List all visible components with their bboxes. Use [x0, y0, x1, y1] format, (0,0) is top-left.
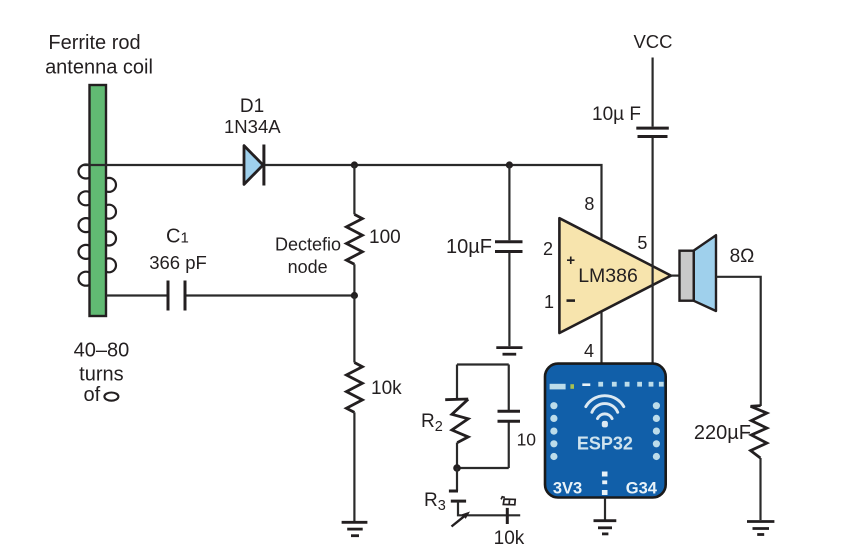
svg-text:10µ F: 10µ F: [592, 104, 641, 125]
wire: detector junction to R 10k: [353, 296, 355, 363]
svg-text:220µF: 220µF: [694, 422, 751, 444]
svg-text:Ferrite rod: Ferrite rod: [48, 32, 140, 54]
resistor 100: [346, 214, 362, 264]
wire: junction down to R 100: [353, 165, 355, 214]
capacitor 10 plates: [498, 411, 521, 421]
label: 40-80 turns of (oval): [74, 339, 130, 405]
trimmer R3 plate 1: [449, 490, 458, 493]
wire: loop bottom: [457, 467, 509, 469]
ESP32 wifi icon: [586, 396, 624, 419]
capacitor 10uF plates: [495, 242, 523, 252]
junction: top net / R 100: [351, 161, 358, 168]
antenna coil turns: [79, 165, 117, 286]
trimmer glyph: [501, 497, 515, 505]
svg-text:LM386: LM386: [578, 265, 638, 287]
wire: R2 loop top: [457, 363, 509, 365]
wire: top junction to 10uF cap: [508, 165, 510, 240]
ESP32 top pads: [550, 382, 664, 390]
svg-text:10: 10: [517, 429, 537, 449]
wire: R100 to detector junction: [353, 264, 355, 295]
ground (below ESP32): [594, 521, 617, 534]
svg-text:10k: 10k: [371, 378, 402, 399]
svg-text:40–80: 40–80: [74, 339, 130, 361]
trimmer R3 plate 2: [451, 500, 466, 503]
svg-text:10µF: 10µF: [446, 236, 492, 258]
svg-text:100: 100: [369, 227, 401, 248]
op-amp U1 LM386: [559, 218, 671, 333]
wire: VCC net down through triangle to ESP32: [651, 138, 653, 364]
wire: top net (coil top / D1 / detector / pin 8 corner): [84, 165, 602, 244]
wire: cap 10 bottom lead: [508, 423, 510, 469]
wire: VCC down to cap: [651, 58, 653, 127]
wire: bottom net (coil bottom to C1): [106, 294, 167, 296]
wire: LM386 output to speaker: [671, 275, 680, 277]
svg-text:3V3: 3V3: [553, 479, 582, 497]
svg-text:ESP32: ESP32: [577, 433, 633, 453]
resistor 10k: [346, 363, 362, 413]
svg-text:1N34A: 1N34A: [224, 116, 281, 137]
ESP32 right pads: [653, 402, 660, 460]
wire: pin 4 from LM386 down to ESP32: [600, 300, 602, 364]
resistor-drawn 220uF: [751, 406, 767, 458]
diode D1: [244, 145, 264, 186]
ESP32 left pads: [550, 402, 557, 460]
wire: ESP32 ground lead: [604, 498, 606, 520]
ground (below 220uF): [747, 522, 774, 535]
wire: speaker to 220uF: [716, 277, 761, 406]
capacitor C1 plates: [168, 281, 185, 311]
svg-text:node: node: [288, 257, 328, 277]
capacitor 10u F (VCC decoupling) plates: [636, 128, 669, 136]
minus sign (pin 1): [567, 299, 576, 302]
junction: R2 / R3: [453, 464, 461, 472]
svg-text:+: +: [566, 252, 575, 269]
speaker LS1 (magnet): [680, 251, 694, 301]
svg-text:D1: D1: [240, 96, 264, 117]
ferrite rod: [90, 85, 107, 316]
wire: 10uF cap to ground: [508, 253, 510, 346]
svg-text:2: 2: [543, 239, 553, 259]
svg-text:366 pF: 366 pF: [149, 252, 207, 273]
ground (below 10uF): [496, 348, 522, 355]
wire: cap 10 top lead: [508, 365, 510, 411]
wire: R 10k to ground: [353, 412, 355, 521]
svg-text:turns: turns: [79, 364, 123, 386]
ground (below 10k): [342, 522, 368, 535]
resistor R2: [445, 399, 468, 443]
svg-text:antenna coil: antenna coil: [45, 57, 153, 79]
svg-text:VCC: VCC: [633, 31, 672, 52]
svg-text:4: 4: [584, 341, 594, 361]
junction: detector node: [351, 292, 358, 299]
junction: top net / 10uF cap: [506, 161, 513, 168]
svg-text:1: 1: [544, 292, 554, 312]
module U2 ESP32: [545, 364, 666, 498]
ESP32 colon dots: [602, 472, 608, 496]
label: Dectefio node: [275, 234, 341, 277]
wire: C1 to detector node junction: [187, 294, 355, 296]
speaker LS1 (cone): [694, 235, 716, 311]
wiper arrow: [452, 515, 467, 527]
svg-text:C1: C1: [166, 225, 189, 247]
svg-text:8: 8: [584, 194, 594, 214]
svg-text:Dectefio: Dectefio: [275, 234, 341, 254]
svg-text:G34: G34: [626, 479, 658, 497]
svg-text:of: of: [83, 384, 100, 406]
wire: R3 wiper run: [458, 501, 520, 515]
wire: 220uF to ground: [759, 458, 761, 520]
wire: R2 left top: [456, 365, 458, 400]
oval glyph after "of": [104, 393, 118, 401]
trimmer tick: [506, 508, 509, 524]
wire: junction down to R3: [456, 468, 458, 491]
label: Ferrite rod antenna coil: [45, 32, 153, 79]
wire: R2 bottom to junction: [456, 443, 458, 469]
svg-text:10k: 10k: [494, 528, 525, 549]
svg-text:8Ω: 8Ω: [730, 246, 755, 267]
svg-text:5: 5: [637, 233, 647, 253]
